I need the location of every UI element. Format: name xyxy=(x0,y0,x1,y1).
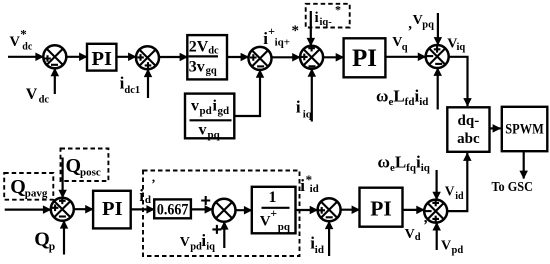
summing junction S2 xyxy=(136,46,159,69)
wire Vdc* input xyxy=(8,56,43,58)
svg-text:pavg: pavg xyxy=(25,188,48,200)
wire S7 to inverse block xyxy=(236,209,252,211)
svg-text:posc: posc xyxy=(80,167,101,179)
wire PI2 to S5 xyxy=(385,56,425,58)
summing junction S7 xyxy=(213,199,236,222)
wire S9 to dqabc xyxy=(447,153,467,211)
svg-text:pq: pq xyxy=(422,20,434,31)
svg-text:V: V xyxy=(441,238,451,253)
svg-text:dq-: dq- xyxy=(458,113,480,129)
svg-text:*: * xyxy=(20,27,27,42)
svg-text:iq: iq xyxy=(457,42,466,53)
wire S5 to dqabc xyxy=(449,57,468,106)
wire Qpavg input xyxy=(5,209,51,211)
svg-text:PI: PI xyxy=(102,198,123,220)
svg-text:pd: pd xyxy=(452,245,464,256)
block 1/vpq xyxy=(252,187,296,234)
wire Vpd input xyxy=(436,223,438,250)
svg-text:PI: PI xyxy=(91,48,112,70)
svg-text:V: V xyxy=(405,227,415,242)
wire idc1 feedback xyxy=(147,69,149,98)
svg-text:pd: pd xyxy=(190,242,202,253)
svg-text:dc: dc xyxy=(39,95,50,106)
wire iiq feedback xyxy=(311,69,313,122)
svg-text:V: V xyxy=(260,213,271,229)
block PI3 xyxy=(93,191,131,229)
node wLfd iid label xyxy=(376,87,428,109)
svg-text:id: id xyxy=(455,191,464,202)
svg-text:V: V xyxy=(10,34,21,50)
node vq prime xyxy=(408,16,412,32)
svg-text:iq: iq xyxy=(206,242,215,253)
svg-text:v: v xyxy=(199,122,207,139)
node Vpd label xyxy=(441,238,463,256)
svg-text:V: V xyxy=(445,184,455,199)
summing junction S9 xyxy=(424,200,447,223)
svg-text:PI: PI xyxy=(352,45,377,72)
node vq label xyxy=(392,35,408,53)
svg-text:Q: Q xyxy=(10,176,26,198)
node Vid label xyxy=(445,184,464,203)
node Qp label xyxy=(34,229,55,254)
svg-text:i: i xyxy=(300,176,305,195)
node wLfq iiq label xyxy=(378,153,431,175)
node vd label xyxy=(405,227,421,243)
svg-text:Q: Q xyxy=(66,155,82,177)
wire PI3 to 0.667 xyxy=(131,208,155,210)
svg-text:i: i xyxy=(296,97,301,116)
svg-text:i: i xyxy=(315,10,319,26)
wire S2 to gain block xyxy=(159,56,188,58)
dashed box Qposc xyxy=(61,149,109,182)
block PI4 xyxy=(360,188,403,227)
wire vpdiiq input xyxy=(223,222,225,248)
node Vdc* label xyxy=(10,27,33,53)
svg-text:d: d xyxy=(415,232,421,243)
wire vpdigd block to S3 xyxy=(234,70,260,116)
svg-text:p: p xyxy=(49,241,55,253)
dashed box iiq- reference xyxy=(306,3,350,29)
svg-text:2V: 2V xyxy=(189,38,209,55)
wire S6 to PI3 xyxy=(74,208,93,210)
summing junction S1 xyxy=(43,45,66,68)
wire Qposc to S6 xyxy=(61,158,63,198)
node id' label xyxy=(139,176,155,206)
svg-text:d: d xyxy=(145,194,151,206)
svg-text:iq-: iq- xyxy=(320,17,333,28)
svg-text:*: * xyxy=(335,3,341,17)
block 0.667 xyxy=(154,199,191,218)
wire Vdc feedback xyxy=(54,68,56,94)
block PI2 xyxy=(344,38,386,77)
node To GSC label xyxy=(492,180,534,195)
svg-text:q: q xyxy=(402,42,408,53)
block vpd igd / vpq xyxy=(185,94,234,141)
svg-text:1: 1 xyxy=(269,189,277,206)
svg-text:PI: PI xyxy=(370,196,392,220)
svg-text:V: V xyxy=(413,13,423,28)
svg-text:*: * xyxy=(292,23,300,39)
node idc1 label xyxy=(120,74,141,97)
summing junction S6 xyxy=(51,198,74,221)
svg-text:+: + xyxy=(270,206,277,220)
node S7 plus top xyxy=(201,196,210,205)
wire inverse block to S8 xyxy=(296,209,318,211)
wire 0.667 to S7 xyxy=(191,208,213,210)
node star label xyxy=(292,23,300,39)
svg-text:dc1: dc1 xyxy=(124,85,140,96)
svg-text:V: V xyxy=(26,86,38,103)
node vpq label xyxy=(413,13,435,31)
svg-text:,: , xyxy=(408,16,412,32)
svg-text:id: id xyxy=(310,183,319,195)
wire iid feedback xyxy=(328,221,330,256)
svg-text:pq: pq xyxy=(278,221,291,233)
wire PI4 to S9 xyxy=(403,209,425,211)
summing junction S5 xyxy=(426,45,449,68)
svg-text:abc: abc xyxy=(457,131,480,147)
dashed box Qpavg xyxy=(4,173,53,200)
svg-text:0.667: 0.667 xyxy=(157,202,189,219)
svg-text:3v: 3v xyxy=(189,58,205,75)
summing junction S8 xyxy=(318,198,341,221)
summing junction S4 xyxy=(300,45,323,69)
svg-text:pq: pq xyxy=(208,129,221,141)
svg-text:iq+: iq+ xyxy=(275,36,290,48)
svg-text:gd: gd xyxy=(218,105,230,117)
node vpd iiq label xyxy=(180,231,215,253)
node iid* label xyxy=(300,172,318,195)
node iiq label xyxy=(296,97,313,120)
wire S3 to S4 xyxy=(272,56,301,58)
wire wLfd iid feedback xyxy=(437,68,439,110)
svg-text:id: id xyxy=(315,244,324,256)
wire iiq- reference to S4 xyxy=(310,11,312,46)
wire gain block to S3 xyxy=(227,56,249,58)
svg-text:V: V xyxy=(180,235,190,250)
node Vdc label xyxy=(26,86,50,106)
block SPWM xyxy=(502,107,548,151)
block dqabc xyxy=(447,107,489,152)
wire S4 to PI2 xyxy=(323,56,344,58)
svg-text:dc: dc xyxy=(208,45,219,56)
svg-text:iq: iq xyxy=(303,108,313,120)
wire S1 to PI1 xyxy=(66,56,87,58)
summing junction S3 xyxy=(249,47,272,70)
dashed box reference computation xyxy=(143,171,300,257)
wire wLfq iiq to S9 xyxy=(436,170,438,200)
node iid label xyxy=(310,233,324,256)
svg-text:SPWM: SPWM xyxy=(505,122,544,138)
node S7 plus bottom xyxy=(212,225,221,234)
svg-text:’: ’ xyxy=(151,176,155,191)
wire S8 to PI4 xyxy=(341,209,360,211)
block PI1 xyxy=(87,44,116,71)
node iiq+ reference label xyxy=(263,24,290,49)
svg-text:v: v xyxy=(191,98,199,115)
wire PI1 to S2 xyxy=(116,56,136,58)
node viq label xyxy=(447,36,465,53)
svg-text:Q: Q xyxy=(34,229,50,251)
wire vpq input xyxy=(437,13,439,45)
block gain 2Vdc/3vgq xyxy=(187,35,227,79)
wire dqabc to SPWM xyxy=(490,127,501,129)
wire SPWM output xyxy=(523,151,525,178)
wire Qp input xyxy=(63,221,65,255)
svg-text:dc: dc xyxy=(22,42,33,53)
node vd prime xyxy=(424,210,428,226)
svg-text:To GSC: To GSC xyxy=(492,180,534,195)
svg-text:gq: gq xyxy=(206,66,217,77)
svg-text:pd: pd xyxy=(200,105,212,117)
